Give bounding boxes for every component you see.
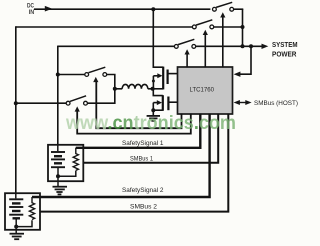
wire SW1 control arrow (220, 12, 225, 17)
wire IC top pin control shaft SW3 (186, 54, 188, 68)
node battery1 negative junction (56, 174, 60, 178)
wire IC bottom pin 1 to SW4 control (96, 81, 181, 128)
wire SMBus HOST double arrow (237, 102, 249, 104)
svg-text:IN: IN (29, 10, 35, 16)
wire battery1 bottom to thermistor (58, 171, 76, 177)
switch SW2 battery2 power switch (192, 20, 213, 29)
wire IC bottom pin 2 to SW5 control (77, 111, 191, 134)
wire IC top pin control shaft SW1 (222, 17, 224, 68)
ground battery2 GND symbol (10, 234, 25, 240)
svg-text:SafetySignal 1: SafetySignal 1 (122, 140, 164, 147)
wire battery1 ground lead (57, 176, 59, 186)
wire battery1 top rail (58, 45, 175, 47)
node Q1 body tap (152, 80, 155, 83)
switch SW3 battery1 power switch (174, 39, 195, 48)
wire phase node down to Q2 drain (153, 89, 163, 96)
wire DC IN arrowhead (45, 6, 53, 12)
resistor RT2 SafetySignal thermistor (29, 197, 34, 220)
wire IC bottom pin 6 SMBus 2 net (40, 114, 228, 212)
wire battery2 to switch SW5 (16, 102, 66, 104)
resistor RT1 SafetySignal thermistor (73, 148, 78, 171)
wire Q1 body arrowhead (157, 73, 162, 78)
wire battery2 bottom to thermistor (16, 220, 32, 226)
wire SW5 output to inductor node (87, 89, 114, 103)
node system power junction B (249, 44, 253, 48)
wire Q2 body arrow shaft (153, 102, 157, 104)
transistor Q2 channel bar (bottom synchronous MOSFET) (162, 95, 164, 111)
wire charger input feed from DCIN node (153, 9, 163, 67)
switch SW4 charger to battery1 (85, 67, 107, 76)
wire Q1 gate lead to IC (169, 73, 179, 75)
node battery2 rail tap (14, 101, 18, 105)
svg-text:SMBus (HOST): SMBus (HOST) (254, 100, 298, 107)
wire IC top pin control shaft SW2 (204, 34, 206, 67)
transistor Q2 gate bar (167, 97, 169, 111)
wire Q2 body connection vertical (152, 103, 154, 111)
node DCIN junction to charger (151, 7, 155, 11)
wire SW2 control arrow (203, 30, 208, 35)
wire IC bottom pin 5 SMBus 1 net (84, 114, 219, 163)
wire SYSTEM POWER arrowhead (262, 44, 269, 49)
node system power junction A (241, 44, 245, 48)
battery pack 1 enclosure (48, 145, 83, 181)
wire switch SW2 right to bus (214, 26, 243, 28)
wire right bus vertical from DCIN corner down to system power line (242, 9, 244, 46)
wire inductor left lead (115, 88, 122, 90)
svg-text:SMBus 2: SMBus 2 (130, 203, 158, 210)
ground battery1 GND symbol (53, 187, 68, 195)
battery pack 2 enclosure (5, 193, 40, 230)
switch SW1 DCIN power switch (213, 2, 234, 11)
wire IC bottom pin 3 SafetySignal 1 net (76, 114, 201, 148)
wire inductor right lead to phase node (148, 88, 153, 90)
wire SW3 control arrow (185, 49, 190, 54)
wire IC bottom pin 4 SafetySignal 2 net (32, 114, 210, 197)
node battery1 rail tap (56, 73, 60, 77)
node right bus at row2 (241, 25, 245, 29)
wire battery2 ground lead (15, 227, 17, 234)
svg-text:www.cntronics.com: www.cntronics.com (65, 113, 236, 134)
wire Q1 body connection vertical (152, 76, 154, 89)
wire left rail vertical (battery 2 positive) (15, 26, 17, 193)
ground charger GND symbol (147, 116, 160, 121)
op-amp U1 LTC1760 controller box (178, 67, 233, 114)
node Q2 source junction (151, 108, 155, 112)
inductor L1 (122, 84, 148, 88)
wire SW4 output to inductor node (107, 75, 115, 89)
battery BT2 cells (9, 193, 23, 226)
wire DC IN right segment to corner (234, 8, 244, 10)
wire system power drop to IC (239, 46, 251, 74)
svg-text:DC: DC (27, 3, 35, 9)
node battery2 negative junction (14, 225, 18, 229)
battery BT1 cells (51, 146, 65, 177)
switch SW5 charger to battery2 (66, 96, 87, 105)
transistor Q1 gate bar (167, 70, 169, 85)
wire Q2 body arrowhead (157, 100, 162, 105)
wire Q1 source lead (phase node) (153, 88, 164, 90)
transistor Q1 channel bar (top charger MOSFET) (162, 67, 164, 90)
wire switch SW3 right to system power arrow (196, 45, 263, 47)
wire Q2 source lead (153, 109, 163, 111)
node inductor input junction (113, 87, 117, 91)
wire Q1 body arrow shaft (153, 75, 158, 77)
wire battery1 to switch SW4 (58, 74, 85, 76)
wire Q2 gate lead to IC (169, 101, 178, 103)
wire IC right input arrowhead (234, 72, 241, 77)
wire battery2 top rail from left corner (16, 26, 193, 28)
svg-text:SMBus 1: SMBus 1 (130, 155, 154, 162)
svg-text:POWER: POWER (272, 50, 297, 59)
svg-text:LTC1760: LTC1760 (190, 86, 215, 93)
node phase junction (151, 87, 155, 91)
wire SW5 control arrow (75, 106, 80, 111)
wire Q2 source to ground (152, 110, 154, 115)
svg-text:SYSTEM: SYSTEM (272, 40, 298, 49)
wire battery1 rail vertical (battery 1 positive) (57, 46, 59, 146)
wire DC IN input line (34, 8, 210, 10)
svg-text:SafetySignal 2: SafetySignal 2 (122, 187, 164, 194)
wire SW4 control arrow (93, 77, 98, 82)
